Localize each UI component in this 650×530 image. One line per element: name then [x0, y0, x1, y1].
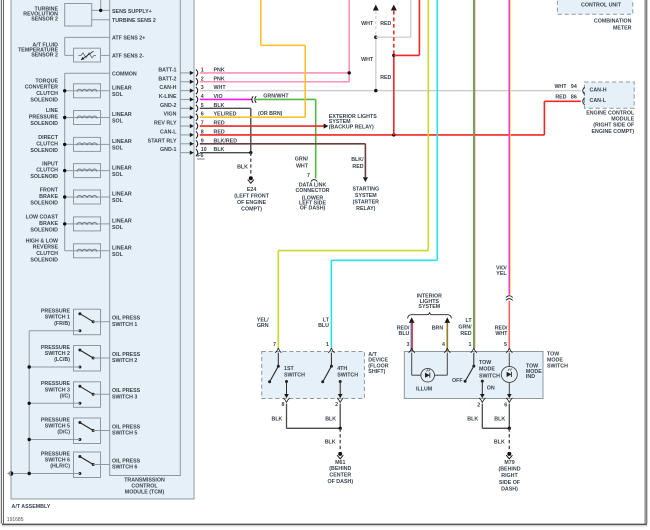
svg-text:SOLENOID: SOLENOID	[30, 257, 58, 263]
label (OR BRN)	[258, 111, 283, 117]
tow mode pin 4	[442, 342, 450, 353]
svg-text:SWITCH 3: SWITCH 3	[45, 387, 70, 393]
wire BLK from tow pin 2	[482, 404, 509, 429]
pin label OIL PRESS SWITCH 3	[112, 388, 141, 400]
svg-text:3: 3	[406, 342, 409, 348]
svg-text:BRAKE: BRAKE	[39, 194, 58, 200]
label M61 (BEHIND CENTER OF DASH)	[327, 460, 353, 485]
label ON	[487, 386, 495, 392]
label BLK pin8	[272, 416, 283, 422]
pin label OIL PRESS SWITCH 2	[112, 352, 141, 364]
TCM pin 8 CAN-L	[160, 129, 225, 138]
svg-text:TOW: TOW	[479, 360, 491, 366]
svg-text:SHIFT): SHIFT)	[368, 369, 385, 375]
wire RED to combination meter	[391, 5, 397, 135]
svg-text:PRESSURE: PRESSURE	[29, 115, 59, 121]
svg-text:1ST: 1ST	[284, 366, 294, 372]
pressure switch 6 (HLR/C)	[29, 452, 110, 478]
svg-text:BLK/: BLK/	[351, 157, 364, 163]
svg-text:YEL: YEL	[496, 271, 507, 277]
label BLK pin2	[325, 416, 336, 422]
svg-text:BLK: BLK	[272, 416, 283, 422]
svg-text:FRONT: FRONT	[40, 188, 59, 194]
svg-text:SWITCH 5: SWITCH 5	[45, 424, 70, 430]
label BLK	[237, 165, 248, 171]
label BLK to M79	[494, 439, 505, 445]
svg-text:ILLUM: ILLUM	[416, 386, 433, 392]
label YEL/GRN	[257, 317, 269, 329]
label ENGINE CONTROL MODULE (RIGHT SIDE OF ENGINE COMPT)	[586, 110, 635, 135]
label INPUT CLUTCH SOLENOID	[30, 161, 58, 180]
svg-text:MODE: MODE	[547, 358, 563, 364]
svg-text:E24: E24	[247, 187, 256, 193]
label WHT 94	[554, 84, 576, 90]
label PRESSURE SWITCH 3 (I/C)	[41, 381, 71, 399]
svg-text:CLUTCH: CLUTCH	[36, 91, 58, 97]
svg-text:IND: IND	[526, 374, 535, 380]
TCM pin 10 GND-1	[160, 147, 225, 156]
label GRN/WHT at data link	[295, 157, 309, 170]
tow mode indicator LED	[501, 353, 517, 399]
node pressure switch common at enclosure edge	[7, 471, 13, 476]
label PRESSURE SWITCH 1 (FR/B)	[41, 309, 71, 327]
svg-text:F6: F6	[197, 153, 203, 159]
svg-text:PRESSURE: PRESSURE	[41, 381, 71, 387]
svg-text:SWITCH 1: SWITCH 1	[45, 315, 70, 321]
wire BLK to ground E24	[250, 153, 252, 176]
svg-text:SOL: SOL	[112, 225, 124, 231]
label A/T DEVICE (FLOOR SHIFT)	[368, 352, 388, 375]
svg-text:START RLY: START RLY	[148, 138, 177, 144]
svg-text:WHT: WHT	[554, 84, 567, 90]
svg-text:CONTROL UNIT: CONTROL UNIT	[581, 2, 622, 8]
wire SENS SUPPLY+	[92, 0, 110, 10]
pin label LINEAR SOL	[112, 246, 132, 259]
wire BLK from pin 2	[339, 404, 341, 429]
svg-text:1: 1	[469, 342, 472, 348]
pin label ATF SENS 2+	[112, 36, 145, 42]
svg-text:4TH: 4TH	[337, 366, 347, 372]
svg-text:BRN: BRN	[432, 326, 444, 332]
label UNIFIED METER CONTROL UNIT	[580, 0, 621, 8]
node BLK junction M79	[508, 427, 511, 430]
svg-text:SYSTEM: SYSTEM	[418, 304, 440, 310]
label RED 86	[555, 94, 577, 100]
wire YEL/GRN to 1st switch	[278, 0, 428, 348]
node RED junction upper	[392, 54, 395, 57]
line pressure solenoid	[63, 111, 110, 125]
wire K-LINE VIO	[200, 98, 253, 100]
svg-text:94: 94	[571, 84, 577, 90]
svg-text:TOW: TOW	[547, 351, 559, 357]
TCM pin 1 BATT-1	[158, 67, 225, 76]
node CAN-L junction	[392, 133, 395, 136]
wire REV RLY RED to backup relay	[200, 123, 328, 128]
svg-text:OIL PRESS: OIL PRESS	[112, 424, 141, 430]
node PNK junction	[348, 71, 351, 74]
svg-text:SOL: SOL	[112, 198, 124, 204]
svg-text:BLU: BLU	[399, 331, 410, 337]
low coast brake solenoid	[63, 217, 110, 231]
pressure switch 1 (FR/B)	[29, 309, 110, 335]
svg-text:CLUTCH: CLUTCH	[36, 168, 58, 174]
svg-text:SENS SUPPLY+: SENS SUPPLY+	[112, 9, 152, 15]
svg-text:SOLENOID: SOLENOID	[30, 200, 58, 206]
svg-text:OF DASH): OF DASH)	[300, 206, 326, 212]
svg-text:BRAKE: BRAKE	[39, 221, 58, 227]
svg-text:LINEAR: LINEAR	[112, 86, 132, 92]
label PRESSURE SWITCH 2 (LC/B)	[41, 345, 71, 363]
svg-text:SWITCH 6: SWITCH 6	[112, 465, 137, 471]
svg-text:ATF SENS 2+: ATF SENS 2+	[112, 36, 145, 42]
wire PNK battery feed going up	[348, 0, 350, 73]
label 1ST SWITCH	[284, 366, 305, 378]
svg-text:OF ENGINE: OF ENGINE	[237, 200, 267, 206]
pin label LINEAR SOL	[112, 219, 132, 232]
svg-text:SENSOR 2: SENSOR 2	[31, 53, 58, 59]
svg-text:MODULE: MODULE	[611, 117, 634, 123]
tow mode switch box	[404, 352, 543, 399]
svg-text:LOW COAST: LOW COAST	[26, 215, 59, 221]
wire LT BLU to 4th switch	[331, 0, 437, 348]
svg-text:CAN-H: CAN-H	[159, 85, 176, 91]
label COMBINATION METER	[594, 19, 632, 32]
unified meter control unit box	[557, 0, 632, 14]
svg-text:(BEHIND: (BEHIND	[329, 466, 351, 472]
svg-text:VIGN: VIGN	[164, 112, 177, 118]
label RED/WHT	[495, 326, 508, 338]
node sens supply junction	[99, 9, 102, 12]
svg-text:RED: RED	[555, 94, 566, 100]
svg-text:2: 2	[477, 402, 480, 408]
TCM pin 6 VIGN	[164, 112, 237, 121]
pressure switch common wire	[11, 331, 74, 475]
svg-text:SWITCH 1: SWITCH 1	[112, 322, 137, 328]
svg-text:CENTER: CENTER	[329, 473, 351, 479]
svg-text:A/T ASSEMBLY: A/T ASSEMBLY	[12, 504, 51, 510]
label INTERIOR LIGHTS SYSTEM	[417, 294, 442, 310]
svg-text:(I/C): (I/C)	[60, 394, 71, 400]
data link connector pin 7	[307, 173, 317, 182]
high & low reverse clutch solenoid	[65, 244, 110, 258]
svg-text:SOL: SOL	[112, 146, 124, 152]
pin label LINEAR SOL	[112, 165, 132, 178]
svg-text:SENSOR 2: SENSOR 2	[31, 17, 58, 23]
ground M79	[506, 452, 512, 459]
svg-text:INPUT: INPUT	[42, 161, 59, 167]
label EXTERIOR LIGHTS SYSTEM (BACKUP RELAY)	[329, 114, 377, 130]
svg-text:CLUTCH: CLUTCH	[36, 251, 58, 257]
svg-text:SOL: SOL	[112, 92, 124, 98]
pin label LINEAR SOL	[112, 139, 132, 152]
svg-text:STARTING: STARTING	[352, 187, 379, 193]
svg-text:GRN/WHT: GRN/WHT	[263, 93, 289, 99]
svg-text:MODE: MODE	[479, 367, 495, 373]
wire VIO/YEL	[509, 0, 510, 295]
label RED lower	[380, 75, 391, 81]
label VIO/YEL	[496, 265, 507, 277]
label BLK tow pin6	[494, 416, 505, 422]
svg-text:SWITCH 2: SWITCH 2	[112, 358, 137, 364]
svg-text:191685: 191685	[7, 517, 24, 523]
direct clutch solenoid	[63, 137, 110, 151]
svg-text:M79: M79	[504, 460, 514, 466]
svg-text:GRN/: GRN/	[295, 157, 309, 163]
svg-text:CONNECTOR: CONNECTOR	[295, 188, 329, 194]
ground E24	[248, 176, 254, 183]
svg-text:HIGH & LOW: HIGH & LOW	[26, 238, 58, 244]
svg-text:SOL: SOL	[112, 172, 124, 178]
brace interior lights system	[408, 312, 452, 318]
label connector F6	[197, 153, 204, 159]
svg-text:(BEHIND: (BEHIND	[498, 467, 520, 473]
svg-text:(HLR/C): (HLR/C)	[50, 464, 70, 470]
svg-text:SWITCH 6: SWITCH 6	[45, 458, 70, 464]
label GRN/WHT	[263, 93, 289, 99]
label diagram number 191685	[7, 517, 24, 523]
svg-text:WHT: WHT	[361, 21, 374, 27]
svg-text:BLK: BLK	[325, 416, 336, 422]
pin label OIL PRESS SWITCH 6	[112, 458, 141, 470]
torque converter clutch solenoid	[63, 84, 110, 98]
A/T device pin 1	[326, 342, 334, 353]
wire WHT branch	[376, 0, 411, 37]
svg-text:WHT: WHT	[361, 57, 374, 63]
svg-text:DIRECT: DIRECT	[38, 135, 58, 141]
svg-text:5: 5	[504, 342, 507, 348]
4th switch	[321, 353, 342, 399]
wire GRN/WHT to data link connector	[254, 99, 315, 178]
label OFF	[452, 378, 463, 384]
wire BLK from tow pin 6	[508, 404, 510, 429]
A/T device (floor shift) box	[262, 352, 365, 399]
label HIGH & LOW REVERSE CLUTCH SOLENOID	[26, 238, 59, 263]
svg-text:OIL PRESS: OIL PRESS	[112, 352, 141, 358]
svg-text:ENGINE COMPT): ENGINE COMPT)	[592, 129, 635, 135]
svg-text:ATF SENS 2-: ATF SENS 2-	[112, 54, 144, 60]
svg-text:(FR/B): (FR/B)	[54, 321, 70, 327]
tow mode pin 2	[477, 398, 485, 409]
svg-text:SOLENOID: SOLENOID	[30, 227, 58, 233]
svg-text:BLK: BLK	[494, 439, 505, 445]
svg-text:RED: RED	[460, 331, 471, 337]
label TORQUE CONVERTER CLUTCH SOLENOID	[25, 78, 59, 103]
pin label OIL PRESS SWITCH 1	[112, 316, 141, 328]
svg-text:RED: RED	[380, 75, 391, 81]
label BLK to M61	[325, 439, 336, 445]
svg-text:SWITCH 2: SWITCH 2	[45, 351, 70, 357]
svg-text:BATT-1: BATT-1	[158, 67, 176, 73]
svg-text:TURBINE SENS 2: TURBINE SENS 2	[112, 18, 156, 24]
TCM (transmission control module) box	[110, 0, 181, 476]
svg-text:PRESSURE: PRESSURE	[41, 345, 71, 351]
wire GND-2 BLK	[200, 108, 251, 152]
svg-text:OFF: OFF	[452, 378, 463, 384]
svg-text:SWITCH: SWITCH	[479, 374, 500, 380]
svg-text:(STARTER: (STARTER	[353, 200, 380, 206]
label E24 (LEFT FRONT OF ENGINE COMPT)	[234, 187, 269, 213]
input clutch solenoid	[63, 164, 110, 178]
wire COMMON solenoid feed	[65, 73, 110, 251]
A/T device pin 2	[335, 398, 343, 408]
pressure switch 2 (LC/B)	[29, 346, 110, 372]
label TOW MODE SWITCH internal	[479, 360, 500, 380]
svg-text:PRESSURE: PRESSURE	[41, 309, 71, 315]
1st switch	[268, 353, 289, 399]
svg-text:GRN: GRN	[257, 323, 269, 329]
pressure switch 3 (I/C)	[29, 382, 110, 408]
svg-text:(OR BRN): (OR BRN)	[258, 111, 283, 117]
wire RED branch	[394, 0, 420, 55]
label BLK tow pin2	[467, 416, 478, 422]
svg-text:COMPT): COMPT)	[241, 207, 262, 213]
TCM pin 3 CAN-H	[159, 85, 226, 94]
label TOW MODE IND	[526, 364, 542, 380]
svg-text:SWITCH 5: SWITCH 5	[112, 431, 137, 437]
svg-text:REV RLY: REV RLY	[154, 121, 177, 127]
label WHT upper	[361, 21, 374, 27]
label DATA LINK CONNECTOR (LOWER LEFT SIDE OF DASH)	[295, 183, 329, 212]
node WHT junction upper	[374, 36, 377, 39]
wire BATT-1 PNK	[200, 72, 349, 74]
label A/T FLUID TEMPERATURE SENSOR 2	[18, 42, 58, 58]
svg-text:LINEAR: LINEAR	[112, 219, 132, 225]
TCM pin 9 START RLY	[148, 138, 238, 147]
label LINE PRESSURE SOLENOID	[29, 108, 59, 127]
svg-text:SOL: SOL	[112, 119, 124, 125]
label PRESSURE SWITCH 5 (D/C)	[41, 417, 71, 435]
A/T fluid temperature sensor 2 (thermistor)	[65, 37, 110, 62]
svg-text:8: 8	[281, 402, 284, 408]
svg-text:COMMON: COMMON	[112, 71, 137, 77]
svg-text:6: 6	[504, 402, 507, 408]
front brake solenoid	[63, 190, 110, 204]
pin label ATF SENS 2-	[112, 54, 144, 60]
pin label COMMON	[112, 71, 137, 77]
svg-text:SIDE OF: SIDE OF	[499, 480, 521, 486]
svg-text:ENGINE CONTROL: ENGINE CONTROL	[586, 110, 635, 116]
label LT BLU	[318, 317, 330, 329]
label STARTING SYSTEM (STARTER RELAY)	[352, 187, 379, 212]
svg-text:LINEAR: LINEAR	[112, 139, 132, 145]
svg-text:SWITCH: SWITCH	[284, 372, 305, 378]
ground M61	[337, 452, 343, 459]
svg-text:CONVERTER: CONVERTER	[25, 85, 58, 91]
svg-text:LINEAR: LINEAR	[112, 192, 132, 198]
svg-text:OIL PRESS: OIL PRESS	[112, 388, 141, 394]
svg-text:GND-1: GND-1	[160, 147, 177, 153]
illumination bulb ILLUM	[412, 353, 448, 382]
wire CAN-L RED	[200, 101, 581, 135]
svg-text:BLK: BLK	[467, 416, 478, 422]
tow mode pin 6	[504, 398, 512, 409]
svg-text:MODULE (TCM): MODULE (TCM)	[125, 490, 165, 496]
A/T device pin 8	[281, 398, 289, 408]
node WHT junction at CAN-H	[374, 89, 377, 92]
wire WHT to combination meter	[373, 5, 379, 91]
svg-text:RIGHT: RIGHT	[501, 473, 518, 479]
wire CAN-H WHT	[200, 90, 581, 92]
inline connector K-LINE	[252, 96, 256, 103]
svg-text:SOLENOID: SOLENOID	[30, 121, 58, 127]
svg-text:2: 2	[335, 402, 338, 408]
svg-text:METER: METER	[613, 26, 632, 32]
label LT GRN/RED	[458, 318, 472, 337]
svg-text:7: 7	[307, 173, 310, 179]
tow mode pin 1	[469, 342, 477, 353]
svg-text:4: 4	[442, 342, 445, 348]
svg-text:OF DASH): OF DASH)	[327, 479, 353, 485]
svg-text:WHT: WHT	[296, 164, 309, 170]
svg-text:CAN-L: CAN-L	[590, 98, 607, 104]
turbine revolution sensor 2	[65, 4, 92, 27]
svg-text:SOLENOID: SOLENOID	[30, 97, 58, 103]
pressure switch 5 (D/C)	[29, 418, 110, 444]
svg-text:LINE: LINE	[46, 108, 59, 114]
svg-text:LINEAR: LINEAR	[112, 246, 132, 252]
svg-text:WHT: WHT	[495, 331, 508, 337]
svg-text:(BACKUP RELAY): (BACKUP RELAY)	[329, 124, 374, 130]
label BLK/RED	[351, 157, 364, 170]
pin label SENS SUPPLY+	[112, 9, 152, 15]
svg-text:SWITCH 3: SWITCH 3	[112, 394, 137, 400]
label FRONT BRAKE SOLENOID	[30, 188, 58, 207]
svg-text:SOLENOID: SOLENOID	[30, 174, 58, 180]
svg-text:OIL PRESS: OIL PRESS	[112, 316, 141, 322]
label TURBINE REVOLUTION SENSOR 2	[23, 6, 58, 22]
tow mode pin 3	[406, 342, 414, 353]
svg-text:SOLENOID: SOLENOID	[30, 148, 58, 154]
label M79 (BEHIND RIGHT SIDE OF DASH)	[498, 460, 520, 492]
svg-text:(LEFT FRONT: (LEFT FRONT	[234, 194, 269, 200]
A/T device pin 7	[273, 342, 281, 353]
label TOW MODE SWITCH external	[547, 351, 568, 369]
wire BATT-2 PNK	[200, 73, 349, 82]
svg-text:COMBINATION: COMBINATION	[594, 19, 632, 25]
svg-text:BLK: BLK	[325, 439, 336, 445]
inline connector VIO/YEL to RED/WHT	[506, 296, 513, 301]
svg-text:(RIGHT SIDE OF: (RIGHT SIDE OF	[593, 123, 635, 129]
label RED/BLU	[397, 326, 410, 338]
node GND junction	[249, 151, 252, 154]
svg-text:M61: M61	[335, 460, 345, 466]
svg-text:RED: RED	[352, 164, 363, 170]
label 4TH SWITCH	[337, 366, 358, 378]
svg-text:LINEAR: LINEAR	[112, 112, 132, 118]
label DIRECT CLUTCH SOLENOID	[30, 135, 58, 154]
pin label LINEAR SOL	[112, 112, 132, 125]
wire BLK from pin 8	[287, 404, 341, 429]
label PRESSURE SWITCH 6 (HLR/C)	[41, 451, 71, 469]
label BRN	[432, 326, 444, 332]
wire START RLY BLK/RED to starter relay	[200, 144, 368, 182]
wire RED/WHT to tow mode switch	[508, 301, 510, 349]
label TRANSMISSION CONTROL MODULE (TCM)	[124, 478, 165, 496]
wire TURBINE SENS 2	[92, 19, 110, 21]
svg-text:(D/C): (D/C)	[57, 430, 70, 436]
svg-text:BATT-2: BATT-2	[158, 76, 176, 82]
svg-text:CAN-H: CAN-H	[590, 88, 607, 94]
label ILLUM	[416, 386, 433, 392]
label A/T ASSEMBLY	[12, 504, 51, 510]
svg-text:LINEAR: LINEAR	[112, 165, 132, 171]
label WHT lower	[361, 57, 374, 63]
wire RED/BLU to interior lights system	[409, 317, 415, 351]
svg-text:SWITCH: SWITCH	[337, 372, 358, 378]
ECM pin CAN-H	[583, 87, 607, 94]
svg-text:7: 7	[273, 342, 276, 348]
svg-text:SYSTEM: SYSTEM	[355, 193, 377, 199]
